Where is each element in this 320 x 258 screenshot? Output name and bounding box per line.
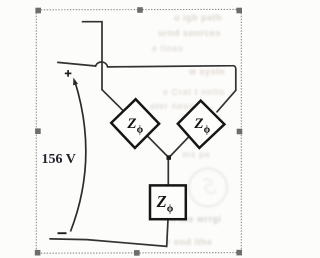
selection dashed border <box>36 9 241 253</box>
impedance Z-phi left (diamond) <box>111 99 159 148</box>
wire: top horizontal right of hop, corner down <box>108 66 236 91</box>
impedance Z-phi right (diamond) <box>178 101 225 148</box>
wire hop over vertical line <box>96 62 108 67</box>
svg-text:e Crat t nnlio: e Crat t nnlio <box>163 87 225 97</box>
plus terminal <box>65 70 72 77</box>
wire: vertical a down to left diamond <box>102 90 124 112</box>
wires (thin) <box>50 22 236 247</box>
wire: left diamond to neutral node <box>148 136 168 156</box>
wire: bottom return <box>50 239 167 247</box>
svg-text:156 V: 156 V <box>42 152 76 167</box>
selection handle bottom-left <box>35 250 41 256</box>
wire: right corner down to right diamond <box>217 90 236 112</box>
ghost bleed-through text rows (decorative, faint) <box>150 13 225 248</box>
svg-text:ater neso: ater neso <box>150 101 195 111</box>
selection handle bottom-middle <box>134 250 140 256</box>
svg-text:ms pe: ms pe <box>182 150 211 160</box>
selection handle right-middle <box>237 129 243 135</box>
svg-text:r end ithe: r end ithe <box>167 237 213 247</box>
page background <box>0 0 251 258</box>
arrowhead <box>73 78 78 86</box>
selection handle bottom-right <box>236 250 242 256</box>
node N (neutral junction dot) <box>167 155 172 160</box>
minus terminal <box>58 232 67 234</box>
wire: node down to Z box <box>167 158 169 186</box>
source voltage rise arrow <box>71 81 86 232</box>
svg-text:u igb path: u igb path <box>174 13 222 23</box>
svg-text:urnd sonrces: urnd sonrces <box>158 28 221 38</box>
selection handle top-middle <box>137 7 143 13</box>
svg-text:e lines: e lines <box>152 44 184 54</box>
wire: right diamond to neutral node <box>170 137 189 156</box>
selection handle top-left <box>35 8 41 14</box>
impedance Z-phi bottom (square) <box>150 185 186 219</box>
selection handle top-right <box>236 8 242 14</box>
wire: Z box down to bottom <box>167 219 168 246</box>
wire: top stub to line a <box>83 22 103 90</box>
selection handle left-middle <box>35 128 41 134</box>
ghost watermark circle <box>189 169 227 207</box>
wire: top horizontal left of hop <box>58 62 96 66</box>
svg-text:w syste: w syste <box>188 67 225 77</box>
